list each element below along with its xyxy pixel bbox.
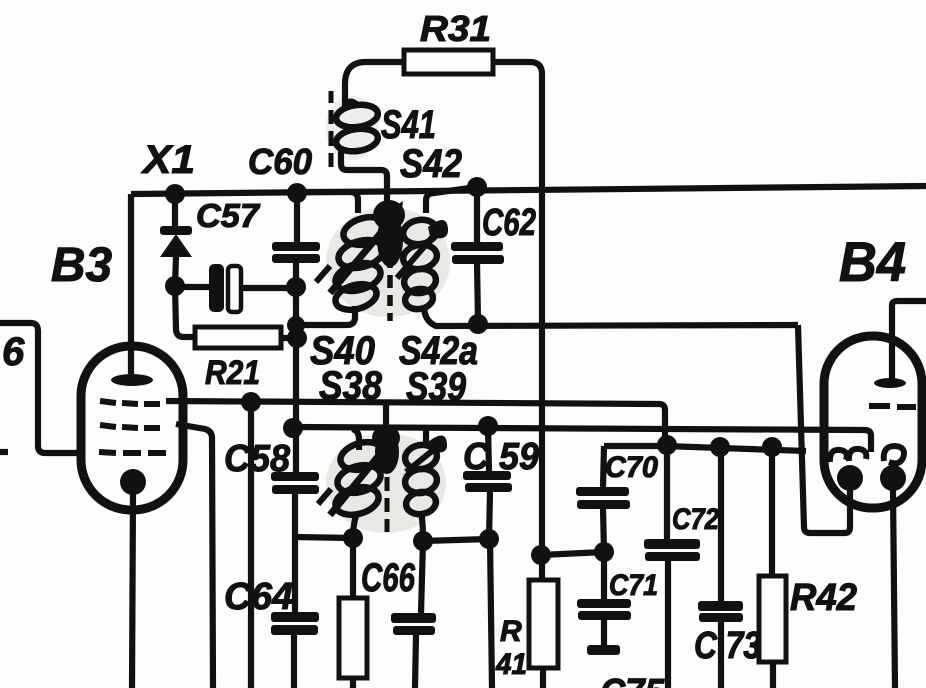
svg-text:C70: C70 xyxy=(605,451,658,484)
svg-text:R42: R42 xyxy=(790,577,857,619)
svg-text:R21: R21 xyxy=(205,354,260,392)
svg-text:C66: C66 xyxy=(361,556,416,600)
svg-text:R31: R31 xyxy=(420,8,491,49)
svg-text:6: 6 xyxy=(2,330,25,374)
svg-text:S38: S38 xyxy=(319,364,383,408)
svg-text:C58: C58 xyxy=(224,438,291,480)
svg-text:C64: C64 xyxy=(224,576,293,618)
svg-text:C75: C75 xyxy=(600,672,665,688)
svg-text:C 73: C 73 xyxy=(694,625,761,667)
svg-text:C72: C72 xyxy=(672,503,719,536)
svg-text:S42: S42 xyxy=(400,142,462,186)
svg-text:C 59: C 59 xyxy=(463,436,539,478)
svg-text:S41: S41 xyxy=(381,103,436,147)
svg-text:C62: C62 xyxy=(482,202,536,244)
svg-text:B3: B3 xyxy=(51,239,112,292)
svg-text:X1: X1 xyxy=(141,138,195,182)
svg-text:C57: C57 xyxy=(196,197,261,234)
svg-text:R: R xyxy=(500,615,522,648)
svg-text:S39: S39 xyxy=(406,365,467,409)
svg-text:C60: C60 xyxy=(248,141,312,182)
svg-text:B4: B4 xyxy=(839,230,906,293)
svg-text:41: 41 xyxy=(495,648,527,681)
svg-text:C71: C71 xyxy=(609,569,658,602)
